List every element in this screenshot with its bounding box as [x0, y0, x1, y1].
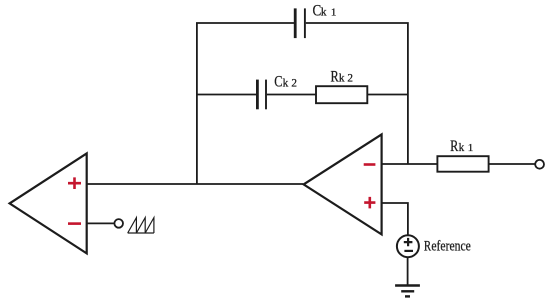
- svg-text:R: R: [450, 137, 458, 155]
- svg-text:1: 1: [468, 142, 474, 154]
- svg-text:eference: eference: [431, 239, 470, 255]
- svg-text:R: R: [331, 69, 339, 86]
- svg-text:k: k: [283, 78, 289, 90]
- svg-text:k: k: [321, 7, 327, 19]
- svg-text:1: 1: [331, 7, 337, 19]
- svg-text:C: C: [274, 74, 282, 91]
- svg-text:R: R: [424, 239, 431, 255]
- svg-text:2: 2: [291, 78, 297, 90]
- svg-text:2: 2: [347, 73, 353, 85]
- svg-text:k: k: [459, 142, 465, 154]
- svg-text:k: k: [339, 73, 345, 85]
